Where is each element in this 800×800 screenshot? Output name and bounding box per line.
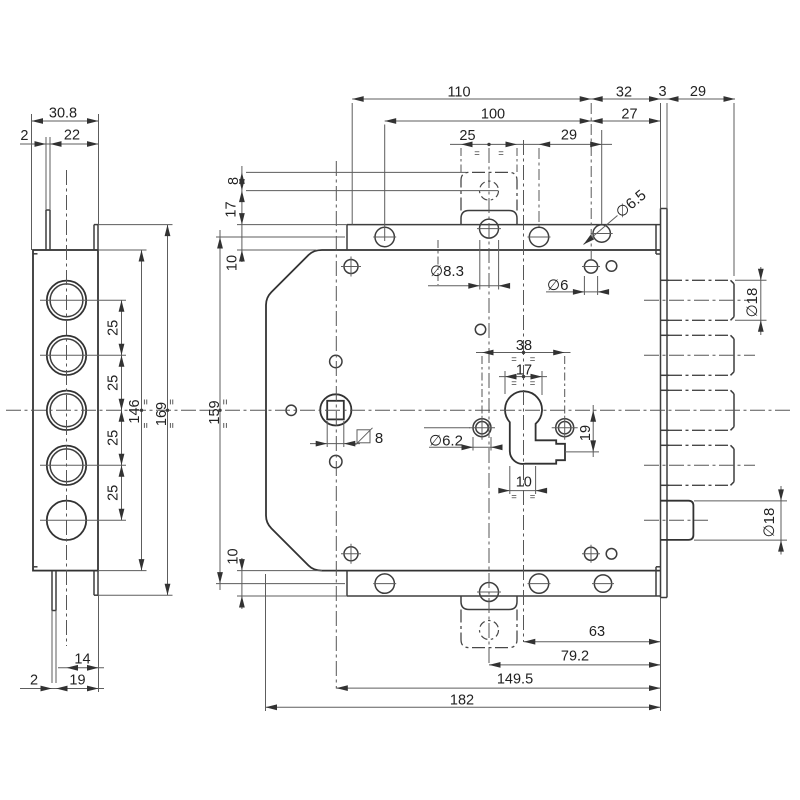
svg-text:29: 29 — [690, 84, 706, 100]
svg-text:=: = — [167, 422, 178, 428]
svg-text:30.8: 30.8 — [49, 106, 77, 122]
svg-text:110: 110 — [447, 84, 470, 100]
svg-text:25: 25 — [459, 128, 475, 144]
svg-text:32: 32 — [616, 84, 632, 100]
svg-text:=: = — [511, 492, 517, 503]
svg-text:=: = — [498, 148, 504, 159]
svg-text:=: = — [141, 422, 152, 428]
svg-text:=: = — [167, 399, 178, 405]
svg-text:∅18: ∅18 — [761, 508, 778, 538]
svg-text:=: = — [511, 378, 517, 389]
svg-text:8: 8 — [375, 430, 383, 447]
svg-text:79.2: 79.2 — [561, 649, 589, 665]
svg-text:∅18: ∅18 — [744, 288, 761, 318]
svg-text:=: = — [220, 422, 231, 428]
svg-text:=: = — [141, 399, 152, 405]
svg-text:17: 17 — [224, 201, 240, 217]
svg-text:25: 25 — [106, 320, 122, 336]
svg-text:3: 3 — [658, 84, 666, 100]
svg-text:25: 25 — [106, 375, 122, 391]
svg-text:182: 182 — [450, 693, 474, 709]
svg-text:63: 63 — [589, 624, 605, 640]
svg-text:=: = — [530, 492, 536, 503]
svg-text:=: = — [530, 378, 536, 389]
svg-text:25: 25 — [106, 430, 122, 446]
svg-text:25: 25 — [106, 485, 122, 501]
svg-text:2: 2 — [30, 673, 38, 689]
svg-text:8: 8 — [226, 177, 242, 185]
svg-text:19: 19 — [69, 673, 85, 689]
svg-text:22: 22 — [64, 128, 80, 144]
svg-text:10: 10 — [225, 255, 241, 271]
svg-text:29: 29 — [561, 128, 577, 144]
svg-text:19: 19 — [578, 425, 594, 441]
svg-text:149.5: 149.5 — [497, 672, 533, 688]
svg-text:2: 2 — [20, 128, 28, 144]
svg-text:27: 27 — [621, 106, 637, 122]
svg-text:∅8.3: ∅8.3 — [430, 263, 464, 280]
svg-text:10: 10 — [226, 548, 242, 564]
svg-text:10: 10 — [516, 474, 532, 490]
svg-text:14: 14 — [74, 652, 90, 668]
svg-text:=: = — [474, 148, 480, 159]
svg-text:100: 100 — [481, 106, 505, 122]
svg-text:=: = — [220, 399, 231, 405]
